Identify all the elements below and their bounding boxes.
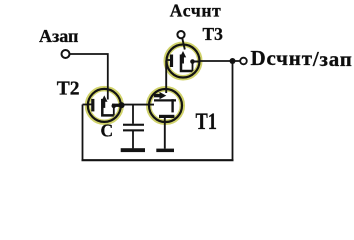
svg-text:Т2: Т2	[57, 79, 80, 100]
svg-text:Т1: Т1	[196, 108, 217, 135]
svg-text:Т3: Т3	[203, 24, 224, 44]
svg-text:Азап: Азап	[39, 26, 78, 46]
svg-text:Асчнт: Асчнт	[170, 1, 222, 21]
svg-text:Dсчнт/зап: Dсчнт/зап	[251, 46, 353, 71]
svg-text:С: С	[101, 121, 114, 141]
